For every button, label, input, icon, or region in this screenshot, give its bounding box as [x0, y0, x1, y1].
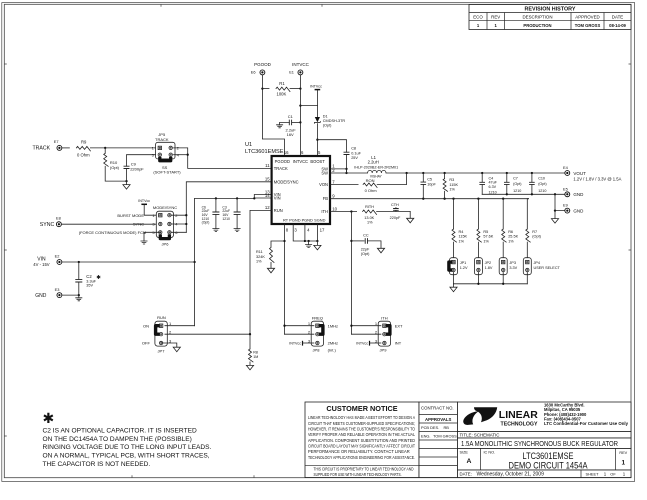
junction C1	[299, 121, 301, 123]
jumper JP3 (3.3V)	[499, 258, 507, 275]
ground arrow at JP7	[173, 347, 180, 352]
title block contract/approvals column	[419, 402, 458, 478]
wire to ground	[126, 181, 128, 185]
svg-text:PGND: PGND	[302, 218, 313, 223]
wire C7 to gnd rail	[506, 185, 508, 195]
svg-text:JP7: JP7	[158, 349, 166, 354]
svg-text:SUPPLIED FOR USE WITH LINEAR T: SUPPLIED FOR USE WITH LINEAR TECHNOLOGY …	[314, 472, 402, 477]
svg-text:E8: E8	[56, 215, 61, 220]
junction R6 top	[502, 198, 504, 200]
svg-text:GND: GND	[573, 192, 584, 197]
shunt on JP6 pins 5-6	[160, 234, 169, 238]
svg-text:12: 12	[265, 205, 270, 210]
wire JP3 to gnd rail	[502, 273, 504, 284]
junction SGND	[316, 240, 318, 242]
wire R9 to JP5 pin1	[90, 147, 158, 149]
svg-text:PRODUCTION: PRODUCTION	[523, 23, 551, 28]
svg-text:INTVCC: INTVCC	[292, 62, 310, 67]
label C5 10pF	[427, 178, 436, 187]
capacitor CTH	[393, 207, 399, 211]
label L1 2.2uH IHLP-2020BZ-ER-2R2M01 VISHAY	[354, 155, 398, 179]
wire jumper gnd rail	[454, 283, 528, 285]
wire R5 to jumper	[477, 242, 479, 260]
svg-text:PCB DES.: PCB DES.	[421, 425, 439, 430]
turret label E9	[563, 203, 568, 208]
svg-text:35V: 35V	[86, 284, 93, 288]
label MODE/SYNC	[153, 205, 177, 210]
svg-text:22pF: 22pF	[361, 247, 370, 251]
svg-text:1.5A MONOLITHIC SYNCHRONOUS BU: 1.5A MONOLITHIC SYNCHRONOUS BUCK REGULAT…	[461, 439, 618, 448]
junction R3 top	[443, 172, 445, 174]
wire to C10	[531, 173, 533, 182]
ground arrow at SGND	[314, 245, 321, 250]
note C2 optional capacitor	[43, 427, 212, 467]
net label VIN	[37, 257, 46, 263]
label JP1 1.2V	[460, 261, 468, 270]
turret E6	[260, 70, 266, 76]
ground arrow below C9/R10	[123, 185, 130, 190]
turret E2	[57, 259, 63, 265]
svg-text:R7: R7	[532, 230, 537, 234]
label FREQ	[312, 316, 323, 321]
label RITH 13.0K 1%	[364, 205, 374, 225]
ground bars at C3	[234, 229, 241, 232]
wire R8 to gnd	[249, 362, 251, 366]
junction C10 top	[531, 172, 533, 174]
net label SYNC	[40, 222, 55, 228]
net label TRACK	[33, 146, 51, 152]
stub earth gnd	[308, 241, 310, 245]
svg-text:1%: 1%	[459, 239, 465, 243]
svg-text:11: 11	[265, 163, 270, 168]
jumper JP6 (MODE/SYNC)	[156, 211, 173, 237]
svg-text:C5: C5	[427, 178, 432, 182]
junction CC	[350, 240, 352, 242]
turret E1	[298, 70, 304, 76]
shunt on JP1	[449, 262, 452, 270]
label JP2 1.8V	[485, 261, 493, 270]
ground bars at C6	[212, 229, 219, 232]
label C8 0.1uF 25V	[351, 146, 361, 160]
wire FB rail end	[527, 198, 528, 200]
label VOUT 1.2V/1.8V/3.3V @ 1.5A	[573, 171, 621, 181]
svg-text:TRACK: TRACK	[33, 146, 51, 152]
svg-text:U1: U1	[245, 142, 252, 148]
wire to C6	[215, 198, 217, 212]
wire MODE/SYNC net to U1 pin15	[186, 182, 271, 233]
turret label E3	[55, 287, 60, 292]
wire FB to R4	[453, 199, 455, 229]
label R10 (Opt)	[110, 160, 120, 170]
svg-text:R4: R4	[459, 230, 464, 234]
net flag INTVcc at JP9	[356, 341, 369, 346]
wire VON pin7 to RON	[330, 184, 358, 186]
shunt on JP8 pins 1-2 (1MHz)	[319, 326, 323, 335]
svg-text:MODE/SYNC: MODE/SYNC	[153, 205, 177, 210]
title rows	[458, 432, 632, 449]
wire ITH riser to JP9 pin1	[351, 325, 381, 327]
wire RT to JP8 pin2	[285, 333, 314, 335]
svg-text:(Opt): (Opt)	[532, 235, 541, 239]
capacitor C7	[504, 182, 510, 184]
stub jumper gnd	[453, 284, 455, 287]
svg-text:13.0K: 13.0K	[364, 216, 374, 220]
svg-text:1: 1	[622, 459, 626, 466]
turret E7	[57, 145, 63, 151]
label C7	[513, 176, 521, 193]
svg-text:14: 14	[265, 193, 270, 198]
junction C4 top	[481, 172, 483, 174]
svg-text:324K: 324K	[256, 255, 265, 259]
wire to R1	[262, 88, 269, 90]
svg-text:REVISION HISTORY: REVISION HISTORY	[525, 7, 576, 13]
svg-text:ON: ON	[143, 323, 149, 328]
ground bars at PGND	[305, 245, 312, 248]
wire JP6 pin5 to ground	[144, 232, 160, 241]
label OFF	[142, 341, 151, 346]
svg-text:10pF: 10pF	[427, 182, 436, 186]
label SS (SOFT-START)	[153, 165, 181, 175]
svg-text:C7: C7	[513, 176, 518, 180]
svg-text:VIN: VIN	[274, 196, 281, 201]
svg-text:C2: C2	[86, 274, 92, 279]
wire output gnd rail	[482, 193, 565, 195]
wire RT riser from U1 pin8	[284, 224, 286, 334]
label JP4 USER SELECT	[534, 261, 561, 270]
labels EXT INT	[395, 323, 403, 345]
wire JP5 pin4	[174, 154, 188, 156]
stub to ground	[78, 295, 80, 298]
junction R5 top	[477, 198, 479, 200]
wire PGND pin3	[293, 224, 317, 241]
wire D1 anode	[316, 106, 318, 117]
svg-text:GND: GND	[35, 293, 47, 299]
svg-text:C8: C8	[351, 146, 356, 150]
svg-text:CIRCUIT THAT MEETS CUSTOMER-SU: CIRCUIT THAT MEETS CUSTOMER-SUPPLIED SPE…	[308, 421, 415, 426]
svg-text:INTVcc: INTVcc	[138, 199, 150, 203]
svg-text:1M: 1M	[253, 355, 258, 359]
svg-text:THE CAPACITOR IS NOT NEEDED.: THE CAPACITOR IS NOT NEEDED.	[43, 461, 151, 468]
ground arrow at R11	[267, 268, 274, 273]
svg-text:JP4: JP4	[534, 261, 541, 265]
svg-text:16V: 16V	[287, 132, 294, 137]
svg-text:1%: 1%	[367, 221, 373, 225]
svg-text:57.6K: 57.6K	[483, 235, 493, 239]
svg-text:(Opt): (Opt)	[202, 221, 210, 225]
svg-text:(Opt): (Opt)	[538, 182, 546, 186]
wire gnd to E9	[555, 194, 565, 210]
wire VOUT rail	[386, 172, 565, 174]
label RON 0 Ohm	[365, 178, 378, 193]
junction E9 gnd	[554, 209, 556, 211]
note asterisk	[43, 410, 55, 426]
svg-text:TOM GROSS: TOM GROSS	[433, 434, 457, 439]
label RUN	[157, 315, 166, 320]
inductor L1	[368, 170, 386, 173]
svg-text:APPLICATION. COMPONENT SUBSTI: APPLICATION. COMPONENT SUBSTITUTION AND …	[308, 438, 415, 443]
label JP3 3.3V	[509, 261, 517, 270]
svg-text:GND: GND	[573, 209, 584, 214]
junction JP2 gnd	[477, 283, 479, 285]
svg-text:LINEAR: LINEAR	[499, 410, 538, 421]
wire to C2	[78, 262, 80, 279]
resistor R8	[249, 349, 254, 362]
resistor R11	[270, 247, 275, 262]
wire to C5	[422, 173, 424, 182]
capacitor C8	[344, 152, 350, 154]
svg-text:220pF: 220pF	[390, 216, 401, 220]
ground arrow at output	[551, 219, 558, 224]
svg-text:CUSTOMER NOTICE: CUSTOMER NOTICE	[326, 404, 397, 413]
svg-text:EXT: EXT	[395, 323, 403, 328]
ground arrow at JP1	[450, 287, 457, 292]
svg-text:ITH: ITH	[381, 316, 388, 321]
svg-text:0 Ohm: 0 Ohm	[77, 152, 90, 157]
svg-text:INTVcc: INTVcc	[289, 342, 301, 346]
svg-text:RT: RT	[283, 218, 289, 223]
svg-text:CMDSH-3TR: CMDSH-3TR	[323, 119, 346, 123]
wire JP4 to gnd rail	[526, 273, 528, 284]
svg-text:VERIFY PROPER AND RELIABLE OPE: VERIFY PROPER AND RELIABLE OPERATION IN …	[308, 432, 416, 437]
capacitor C6	[212, 212, 219, 214]
capacitor C10	[529, 182, 535, 184]
ground bars at E3	[75, 298, 82, 301]
wire VIN rail to U1	[195, 197, 255, 199]
junction earth gnd	[307, 240, 309, 242]
svg-text:LTC3601EMSE: LTC3601EMSE	[245, 149, 284, 155]
junction E3/C2	[78, 294, 80, 296]
svg-text:R6: R6	[508, 230, 513, 234]
resistor R3	[443, 179, 448, 192]
junction PGND	[304, 240, 306, 242]
svg-text:(Opt): (Opt)	[110, 165, 120, 170]
pin numbers JP7	[169, 321, 172, 343]
label C6 22uF 16V 1210 (Opt)	[202, 205, 210, 224]
svg-text:E7: E7	[54, 139, 59, 144]
net label GND	[35, 293, 47, 299]
pin numbers JP8	[308, 321, 311, 343]
turret E9 GND	[564, 208, 570, 214]
junction C10 bottom	[531, 193, 533, 195]
Linear Technology logo	[463, 407, 538, 427]
junction C6	[215, 197, 217, 199]
svg-text:08-14-09: 08-14-09	[609, 23, 626, 28]
label ON	[143, 323, 149, 328]
svg-text:PGOOD: PGOOD	[254, 62, 272, 67]
labels BURST MODE / SYNC / FCM	[79, 213, 147, 235]
svg-text:0 Ohm: 0 Ohm	[365, 188, 378, 193]
svg-text:BOOST: BOOST	[310, 159, 325, 164]
svg-text:JP9: JP9	[380, 347, 388, 352]
svg-text:E9: E9	[563, 203, 568, 208]
wire C6 to ground	[215, 214, 217, 228]
wire VIN riser to JP7 pin1	[194, 198, 196, 325]
wire C8 to SW node	[346, 155, 348, 174]
svg-text:TECHNOLOGY: TECHNOLOGY	[501, 421, 538, 427]
turret E5 GND	[564, 191, 570, 197]
svg-text:RB: RB	[444, 425, 450, 430]
wire to C3	[236, 198, 238, 212]
svg-text:LTC3601EMSE: LTC3601EMSE	[523, 451, 574, 461]
label R5 57.6K	[483, 230, 493, 243]
label JP9	[380, 347, 388, 352]
svg-text:CC: CC	[363, 233, 369, 237]
junction MODE/SYNC pin4	[185, 223, 187, 225]
svg-text:RINGING VOLTAGE DUE TO THE LON: RINGING VOLTAGE DUE TO THE LONG INPUT LE…	[43, 444, 212, 451]
svg-text:R11: R11	[256, 250, 263, 254]
wire FB to R7	[526, 199, 528, 229]
wire R1 to INTVCC	[290, 88, 300, 90]
wire to R3	[444, 173, 446, 179]
svg-text:INTVcc: INTVcc	[356, 342, 368, 346]
turret E8	[56, 221, 62, 227]
resistor R10	[104, 153, 109, 166]
wire JP7 pin3 to gnd	[161, 343, 177, 347]
wire C9 to JP5 pin3	[127, 155, 159, 167]
wire SW pin2	[330, 172, 347, 174]
label C10	[538, 176, 546, 193]
junction SW pin1	[345, 168, 347, 170]
turret label E4	[563, 165, 569, 170]
wire INTVcc to JP9 pin3	[370, 342, 381, 344]
svg-text:INTVcc: INTVcc	[310, 85, 322, 89]
capacitor C4	[479, 182, 485, 184]
title block logo box	[458, 402, 632, 432]
capacitor C2	[75, 279, 82, 282]
turret E4 VOUT	[564, 170, 570, 176]
label C4	[489, 176, 498, 194]
svg-text:D1: D1	[323, 114, 328, 118]
svg-text:VON: VON	[319, 182, 328, 187]
junction R4 top	[452, 198, 454, 200]
resistor R5	[477, 229, 482, 242]
wire INTVcc to JP6 pin1	[144, 205, 158, 215]
label R1 100K	[277, 81, 287, 97]
label R3 115K 1%	[449, 178, 458, 191]
svg-text:DEMO CIRCUIT 1454A: DEMO CIRCUIT 1454A	[509, 460, 588, 470]
svg-text:RON: RON	[366, 178, 375, 183]
net flag INTVcc at D1	[310, 85, 322, 90]
junction R3 bottom	[443, 198, 445, 200]
net label INTVCC	[292, 62, 310, 67]
turret label E6	[251, 70, 256, 75]
wire VIN rail	[62, 261, 195, 263]
svg-text:DATE: DATE	[612, 15, 623, 20]
net flag INTVcc at JP8	[289, 341, 302, 346]
U1 inside pin names	[274, 159, 328, 223]
junction C5 bottom	[422, 198, 424, 200]
U1 pin numbers	[265, 150, 338, 233]
svg-text:MODE/SYNC: MODE/SYNC	[274, 179, 299, 184]
svg-text:CIRCUIT BOARD LAYOUT MAY SIGNI: CIRCUIT BOARD LAYOUT MAY SIGNIFICANTLY A…	[308, 443, 415, 448]
wire FB rail from U1 pin9	[330, 198, 529, 200]
svg-text:USER SELECT: USER SELECT	[534, 266, 561, 270]
svg-text:CTH: CTH	[391, 203, 399, 207]
svg-text:✱: ✱	[43, 410, 55, 426]
svg-text:C2 IS AN OPTIONAL CAPACITOR. I: C2 IS AN OPTIONAL CAPACITOR. IT IS INSER…	[43, 427, 197, 434]
junction JP9 pin1	[350, 325, 352, 327]
svg-text:Wednesday, October 21, 2009: Wednesday, October 21, 2009	[477, 471, 545, 477]
ground arrow at CTH	[407, 218, 414, 223]
wire PGOOD to U1 pin16	[262, 75, 284, 156]
op-amp U1 LTC3601EMSE body	[272, 156, 330, 224]
jumper JP4 (USER SELECT)	[523, 258, 531, 275]
wire JP2 to gnd rail	[477, 273, 479, 284]
wire JP6 pin4	[171, 223, 186, 225]
svg-text:E1: E1	[289, 70, 294, 75]
svg-text:R5: R5	[483, 230, 488, 234]
svg-text:1%: 1%	[508, 239, 514, 243]
ground bars at C1	[276, 125, 283, 128]
wire INTVCC to U1 pin6	[299, 75, 301, 156]
resistor R4	[452, 229, 457, 242]
resistor R1	[276, 87, 290, 92]
label R9 0 Ohm	[77, 140, 90, 158]
turret label E7	[54, 139, 59, 144]
svg-text:LTC Confidential-For Customer: LTC Confidential-For Customer Use Only	[544, 421, 629, 426]
turret label E2	[55, 254, 60, 259]
junction E5 gnd	[554, 193, 556, 195]
turret E3	[57, 292, 63, 298]
label CTH 220pF	[390, 203, 401, 220]
svg-text:1.8V: 1.8V	[485, 266, 493, 270]
wire JP6 pin6	[171, 231, 186, 233]
jumper JP2 (1.8V)	[474, 258, 482, 275]
svg-text:SW: SW	[321, 170, 328, 175]
svg-text:E2: E2	[55, 254, 60, 259]
svg-text:1%: 1%	[256, 260, 262, 264]
svg-text:JP6: JP6	[162, 241, 170, 246]
svg-text:TITLE: SCHEMATIC: TITLE: SCHEMATIC	[460, 433, 500, 438]
wire FB to R6	[502, 199, 504, 229]
wire C5 to FB	[422, 184, 424, 198]
svg-text:JP2: JP2	[485, 261, 492, 265]
label JP7	[158, 349, 166, 354]
resistor R9	[76, 146, 90, 151]
wire to U1 VIN pin13	[254, 195, 271, 199]
wire PGND pin4	[304, 224, 306, 241]
junction R1 right	[299, 87, 301, 89]
svg-text:25.5K: 25.5K	[508, 235, 518, 239]
svg-text:CONTRACT NO.: CONTRACT NO.	[421, 406, 454, 411]
svg-text:(Opt): (Opt)	[513, 182, 521, 186]
pin numbers JP5	[152, 146, 180, 158]
svg-text:IHLP-2020BZ-ER-2R2M01: IHLP-2020BZ-ER-2R2M01	[354, 166, 398, 170]
svg-text:PGOOD: PGOOD	[275, 159, 290, 164]
wire SW to L1	[347, 172, 368, 174]
resistor RON	[363, 183, 377, 188]
jumper JP7 (RUN)	[155, 321, 167, 346]
svg-text:(Int.): (Int.)	[328, 347, 337, 352]
svg-text:R9: R9	[81, 140, 87, 145]
svg-text:FREQ: FREQ	[312, 316, 323, 321]
wire to C7	[506, 173, 508, 182]
svg-text:1%: 1%	[449, 188, 455, 192]
label R6 25.5K	[508, 230, 518, 243]
label CC 22pF (Opt)	[361, 233, 370, 256]
svg-text:INT: INT	[395, 341, 402, 346]
svg-text:TECHNOLOGY APPLICATIONS ENGINE: TECHNOLOGY APPLICATIONS ENGINEERING FOR …	[308, 455, 415, 460]
wire E7 to R9	[62, 147, 69, 149]
svg-text:2.2uH: 2.2uH	[368, 160, 379, 165]
svg-text:ON THE DC1454A TO DAMPEN THE (: ON THE DC1454A TO DAMPEN THE (POSSIBLE)	[43, 436, 192, 443]
stub gnd arrow	[554, 211, 556, 219]
resistor RITH	[363, 210, 377, 215]
label GND E5	[573, 192, 584, 197]
label C2 3.3uF 35V with asterisk	[86, 274, 100, 288]
stub SGND arrow	[316, 241, 318, 245]
label D1 CMDSH-3TR (Opt)	[323, 114, 346, 127]
